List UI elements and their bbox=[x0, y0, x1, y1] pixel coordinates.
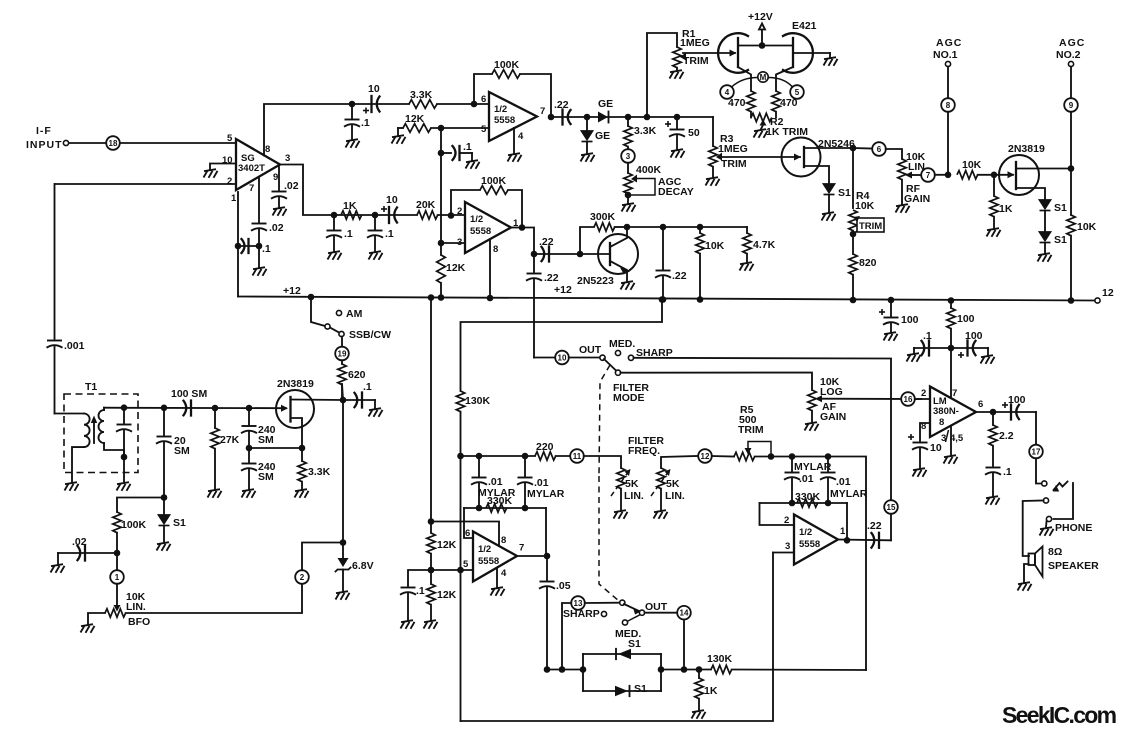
svg-text:3: 3 bbox=[457, 237, 462, 248]
svg-text:14: 14 bbox=[680, 609, 689, 618]
diode GE series bbox=[598, 98, 613, 123]
svg-text:TRIM: TRIM bbox=[683, 55, 709, 67]
svg-text:.22: .22 bbox=[867, 520, 882, 532]
capacitor .01 mylar first bbox=[471, 456, 516, 508]
ground .1 BFO bbox=[369, 408, 383, 417]
svg-text:5K: 5K bbox=[625, 478, 639, 490]
svg-text:470: 470 bbox=[728, 97, 746, 109]
ground U5 pins345 bbox=[944, 426, 958, 464]
wire input to node 18 bbox=[69, 142, 106, 144]
svg-text:10: 10 bbox=[558, 354, 567, 363]
transformer T1 box bbox=[64, 381, 138, 473]
svg-text:T1: T1 bbox=[85, 381, 97, 393]
svg-text:10K: 10K bbox=[962, 159, 982, 171]
capacitor .22 shunt vertical bbox=[526, 254, 559, 358]
junction bus 820 bbox=[850, 297, 857, 304]
capacitor .05 bbox=[539, 556, 571, 670]
resistor 100K U2 feedback bbox=[492, 59, 520, 78]
ground 100uF bbox=[884, 332, 898, 341]
switch2 contact MED bbox=[615, 615, 641, 641]
svg-text:18: 18 bbox=[109, 139, 118, 148]
switch contact SHARP bbox=[628, 347, 672, 360]
ground 1K limiter bbox=[692, 710, 706, 719]
capacitor 10 polarized row2 bbox=[381, 194, 398, 223]
node 7 bbox=[921, 168, 948, 182]
svg-text:AM: AM bbox=[346, 308, 363, 320]
wire U3 pin8 to bus bbox=[489, 240, 491, 298]
svg-text:GE: GE bbox=[595, 130, 610, 142]
ground GE shunt bbox=[581, 153, 595, 162]
ground U2 pin4 bbox=[508, 128, 522, 162]
svg-text:10: 10 bbox=[368, 83, 380, 95]
svg-text:INPUT: INPUT bbox=[26, 139, 63, 151]
svg-text:12: 12 bbox=[701, 452, 710, 461]
svg-text:100: 100 bbox=[965, 330, 983, 342]
wire U4 pin6 bbox=[464, 508, 473, 538]
label OUT switch2 bbox=[645, 601, 668, 613]
wire drain to R4 bbox=[852, 148, 854, 208]
wire U1 pin2 bbox=[55, 183, 236, 185]
ground zener bbox=[336, 591, 350, 600]
svg-text:MYLAR: MYLAR bbox=[830, 488, 868, 500]
junction R1 feed bbox=[644, 114, 651, 121]
wire BFO gate row bbox=[104, 407, 286, 410]
junction 10K top bbox=[697, 224, 704, 231]
capacitor .02 pin9 bbox=[271, 180, 299, 207]
pot 5K LIN first bbox=[611, 468, 644, 510]
I-F INPUT label bbox=[26, 125, 63, 151]
ground 10 U5 bbox=[913, 468, 927, 477]
ground R3 bbox=[706, 177, 720, 186]
capacitor .1 between pin1 and pin7 lines bbox=[238, 239, 271, 255]
svg-text:7: 7 bbox=[540, 106, 545, 117]
trimmer R1 1MEG TRIM bbox=[673, 28, 710, 70]
diode S1 top leftward bbox=[616, 638, 641, 659]
pot 5K LIN second bbox=[651, 456, 698, 510]
ground 12K bbox=[392, 135, 406, 144]
node 10 bbox=[534, 351, 600, 365]
wire 3.3K to U2 pin6 bbox=[437, 103, 489, 105]
svg-text:.1: .1 bbox=[262, 243, 271, 255]
wire pin2 down left bbox=[54, 184, 56, 339]
svg-text:LIN.: LIN. bbox=[624, 490, 644, 502]
svg-text:LIN.: LIN. bbox=[665, 490, 685, 502]
resistor 1K bbox=[341, 200, 362, 219]
capacitor .1 pin7 bbox=[914, 330, 951, 356]
svg-text:2: 2 bbox=[921, 388, 926, 399]
node 17 bbox=[1029, 445, 1043, 481]
junction U3 pin2 bbox=[448, 212, 455, 219]
junction 20SM bbox=[161, 405, 168, 412]
junction .1 cap row bbox=[438, 150, 445, 157]
capacitor .1 U4 bbox=[400, 585, 425, 620]
svg-text:8: 8 bbox=[265, 144, 270, 155]
svg-text:130K: 130K bbox=[465, 395, 491, 407]
svg-text:1MEG: 1MEG bbox=[680, 37, 710, 49]
wire vertical x441 bbox=[440, 128, 442, 255]
wire into T1 primary bbox=[55, 413, 85, 415]
wire bias 322 line bbox=[461, 300, 663, 392]
wire U6 pin3 bbox=[773, 552, 794, 554]
svg-text:.1: .1 bbox=[344, 228, 353, 240]
ground 5K second bbox=[654, 510, 668, 519]
capacitor .02 pin7 bbox=[251, 222, 284, 267]
svg-text:12K: 12K bbox=[405, 113, 425, 125]
labels FILTER FREQ bbox=[628, 435, 664, 457]
ground 4.7K bbox=[740, 262, 754, 271]
diode S1 BFO bbox=[159, 498, 187, 543]
trimmer R5 500 TRIM bbox=[734, 404, 792, 461]
capacitor 240 SM lower bbox=[241, 448, 276, 489]
junction U6 out bbox=[844, 537, 851, 544]
switch arm filter mode bbox=[604, 359, 621, 375]
svg-text:DECAY: DECAY bbox=[658, 186, 694, 198]
wire row to R3 bbox=[712, 117, 714, 146]
svg-text:2N3819: 2N3819 bbox=[277, 378, 314, 390]
svg-text:+12: +12 bbox=[554, 284, 572, 296]
phone jack sleeve to speaker bbox=[1023, 498, 1049, 556]
ground Q2 source bbox=[1038, 253, 1052, 262]
ground AF GAIN bbox=[805, 422, 819, 431]
svg-text:100 SM: 100 SM bbox=[171, 388, 207, 400]
wire SHARP line bbox=[634, 358, 891, 500]
ground 240SM bbox=[242, 489, 256, 498]
svg-text:MED.: MED. bbox=[609, 338, 635, 350]
svg-text:16: 16 bbox=[904, 395, 913, 404]
svg-text:27K: 27K bbox=[220, 434, 240, 446]
svg-text:S1: S1 bbox=[1054, 234, 1067, 246]
svg-text:1: 1 bbox=[115, 573, 120, 582]
svg-text:1K: 1K bbox=[343, 200, 357, 212]
switch contact OUT bbox=[579, 344, 605, 360]
transistor Q1 2N5246 bbox=[782, 138, 855, 185]
trimmer R4 10K TRIM bbox=[849, 190, 884, 254]
resistor 10K horizontal bbox=[957, 159, 994, 179]
svg-text:100: 100 bbox=[957, 313, 975, 325]
svg-text:1MEG: 1MEG bbox=[718, 143, 748, 155]
svg-text:9: 9 bbox=[1069, 101, 1074, 110]
svg-text:330K: 330K bbox=[487, 495, 513, 507]
wire to 100K bbox=[117, 498, 164, 513]
junction Q2 gate bbox=[991, 172, 998, 179]
junction pin5 bias bbox=[428, 567, 464, 574]
svg-text:17: 17 bbox=[1032, 448, 1041, 457]
junction bus 130K feed bbox=[659, 296, 666, 303]
wire node18 to U1 pin5 bbox=[120, 142, 236, 144]
capacitor 240 SM upper bbox=[241, 408, 276, 448]
ground S1 Q1 bbox=[822, 212, 836, 221]
svg-text:3: 3 bbox=[785, 541, 790, 552]
svg-text:S1: S1 bbox=[1054, 202, 1067, 214]
resistor 12K upper U4 bbox=[427, 533, 457, 584]
ground pin9 cap bbox=[273, 207, 287, 216]
speaker 8ohm bbox=[1024, 546, 1099, 582]
svg-text:NO.2: NO.2 bbox=[1056, 49, 1081, 61]
pot 10K LOG AF GAIN bbox=[808, 376, 921, 423]
junction Q1 drain bbox=[850, 145, 857, 152]
svg-text:.22: .22 bbox=[539, 236, 554, 248]
op-amp U2 1/2 5558 bbox=[481, 92, 545, 142]
svg-text:S1: S1 bbox=[628, 638, 641, 650]
wire U6 output bbox=[838, 539, 891, 542]
junction U5 out bbox=[990, 409, 997, 416]
resistor 470 left bbox=[728, 91, 755, 118]
wire collector row bbox=[627, 226, 747, 228]
junction pin7 filters bbox=[948, 345, 955, 352]
svg-text:SSB/CW: SSB/CW bbox=[349, 329, 391, 341]
+12 bus bbox=[238, 284, 1095, 301]
ground E421 right gate bbox=[824, 57, 838, 66]
resistor 1K to ground bbox=[990, 175, 1013, 228]
wire MED line to AF pot bbox=[621, 373, 813, 391]
svg-text:15: 15 bbox=[887, 503, 896, 512]
svg-text:.1: .1 bbox=[363, 381, 372, 393]
ground R2 bbox=[754, 129, 768, 138]
node 4 bbox=[720, 78, 758, 99]
svg-text:AGC: AGC bbox=[936, 37, 962, 49]
junction 130K row456 bbox=[457, 453, 464, 460]
transistor Q3 2N5223 bbox=[577, 227, 638, 287]
wire x431 bus to 12K bbox=[430, 298, 432, 534]
junction BFO drain bbox=[340, 384, 347, 403]
resistor 100K U3 feedback bbox=[480, 175, 508, 194]
capacitor .22 U6 out bbox=[867, 520, 882, 548]
svg-text:.1: .1 bbox=[1003, 466, 1012, 478]
ground 3.3K BFO bbox=[295, 489, 309, 498]
svg-text:20K: 20K bbox=[416, 199, 436, 211]
junction 240SM mid bbox=[246, 445, 302, 452]
node 16 bbox=[901, 392, 930, 406]
ground U4 pin4 bbox=[491, 568, 505, 596]
svg-text:1K TRIM: 1K TRIM bbox=[766, 126, 808, 138]
resistor 100 dropping bbox=[947, 301, 975, 398]
ground pin7 cap bbox=[253, 267, 267, 276]
supply +12V E421 bbox=[748, 11, 773, 46]
resistor 330K U6 bbox=[795, 491, 821, 507]
resistor 130K bias bbox=[456, 391, 490, 721]
pot 10K LIN RF GAIN bbox=[898, 151, 930, 205]
capacitor .02 BFO bbox=[58, 536, 117, 564]
svg-text:2: 2 bbox=[457, 206, 462, 217]
op-amp U3 1/2 5558 bbox=[457, 202, 519, 255]
svg-text:MYLAR: MYLAR bbox=[794, 461, 832, 473]
resistor 27K bbox=[211, 408, 240, 489]
resistor 3.3K AGC bbox=[624, 117, 657, 147]
junction 12K divider bbox=[428, 567, 435, 574]
svg-text:TRIM: TRIM bbox=[721, 158, 747, 170]
svg-text:4: 4 bbox=[501, 568, 507, 579]
wire U2 feedback loop bbox=[474, 74, 551, 117]
ground BFO pot bbox=[81, 624, 95, 633]
ground 100 pin7 bbox=[981, 355, 995, 364]
svg-text:3.3K: 3.3K bbox=[634, 125, 657, 137]
node 3 bbox=[621, 147, 635, 163]
svg-text:6: 6 bbox=[481, 94, 486, 105]
wire U1 pin7 down bbox=[258, 178, 260, 222]
junction mylar1 top bbox=[476, 453, 483, 460]
capacitor 100 SM bbox=[171, 388, 207, 416]
wire U4 feedback row bbox=[464, 507, 546, 509]
trimmer 400K AGC DECAY bbox=[624, 163, 694, 203]
node 18 bbox=[106, 136, 120, 150]
capacitor 100 pin7 bbox=[951, 330, 988, 358]
svg-text:5558: 5558 bbox=[494, 115, 515, 126]
svg-text:8: 8 bbox=[501, 535, 506, 546]
ground 27K bbox=[208, 489, 222, 498]
svg-text:AGC: AGC bbox=[1059, 37, 1085, 49]
node 8 bbox=[941, 98, 955, 175]
svg-text:10: 10 bbox=[386, 194, 398, 206]
capacitor .01 mylar U6 second bbox=[820, 453, 868, 503]
transistor Q4 2N3819 BFO bbox=[276, 378, 343, 448]
svg-text:.02: .02 bbox=[284, 180, 299, 192]
junction pin1 .1 cap bbox=[235, 243, 242, 250]
junction 100K S1 bbox=[161, 494, 168, 501]
svg-text:.1: .1 bbox=[416, 585, 425, 597]
svg-text:7: 7 bbox=[519, 543, 524, 554]
pot 10K LIN BFO bbox=[88, 584, 302, 628]
junction node7 row AGC bbox=[945, 172, 952, 179]
svg-text:100K: 100K bbox=[494, 59, 520, 71]
junction Q3 base bbox=[577, 251, 584, 258]
ground .1 second bbox=[369, 251, 383, 260]
wire U1 pin1 down to +12 bus bbox=[237, 192, 239, 297]
T1 secondary winding bbox=[99, 408, 124, 457]
svg-text:3: 3 bbox=[285, 153, 290, 164]
capacitor 10 polarized top row bbox=[352, 83, 409, 114]
wire 12K to U2 pin5 bbox=[431, 127, 489, 129]
svg-text:130K: 130K bbox=[707, 653, 733, 665]
svg-text:11: 11 bbox=[573, 452, 582, 461]
resistor 620 bbox=[338, 364, 366, 400]
resistor 2.2 bbox=[989, 412, 1014, 466]
svg-text:4: 4 bbox=[725, 88, 730, 97]
wire U4 pin8 bbox=[431, 522, 499, 547]
node 2 bbox=[295, 543, 343, 584]
junction .05 row bbox=[544, 666, 551, 673]
svg-text:12K: 12K bbox=[437, 539, 457, 551]
junction node2 wire bbox=[340, 539, 347, 546]
phone jack tip bbox=[1036, 481, 1073, 527]
node 1 bbox=[110, 553, 124, 606]
wire to R1 bbox=[647, 33, 677, 117]
svg-text:S1: S1 bbox=[634, 683, 647, 695]
svg-text:10K: 10K bbox=[1077, 221, 1097, 233]
junction bus x431 bbox=[428, 294, 435, 301]
svg-text:100: 100 bbox=[901, 314, 919, 326]
resistor 10K AGC2 bbox=[1067, 215, 1097, 300]
resistor 820 bbox=[849, 254, 877, 300]
ground .1 top row bbox=[346, 139, 360, 148]
svg-text:+12V: +12V bbox=[748, 11, 773, 23]
switch AM / SSB-CW bbox=[311, 297, 391, 347]
svg-text:100K: 100K bbox=[121, 519, 147, 531]
wire fb2 down to out bbox=[846, 503, 848, 540]
wire U1 pin9 bbox=[278, 167, 280, 190]
svg-text:MYLAR: MYLAR bbox=[527, 488, 565, 500]
capacitor .1 first bbox=[326, 215, 353, 251]
node M circle bbox=[758, 72, 768, 82]
svg-text:12K: 12K bbox=[437, 589, 457, 601]
resistor 10K collector bbox=[696, 227, 725, 300]
svg-text:8: 8 bbox=[939, 417, 944, 428]
wire U3 out to .22 bbox=[511, 228, 534, 255]
junction source 3.3K bbox=[299, 445, 306, 452]
ground pin10 bbox=[204, 169, 218, 178]
diode S1 bottom rightward bbox=[615, 683, 647, 696]
T1 primary winding bbox=[72, 414, 90, 483]
watermark SeekIC.com bbox=[1002, 702, 1117, 728]
junction pin7 .1 cap bbox=[256, 243, 263, 250]
ground phone bbox=[1040, 527, 1054, 536]
wire U3 feedback bbox=[451, 190, 522, 228]
svg-text:100K: 100K bbox=[481, 175, 507, 187]
ground R1 bbox=[670, 70, 684, 79]
wire R3 wiper to Q1 gate bbox=[721, 154, 801, 161]
node 5 bbox=[768, 78, 804, 99]
ground T1 primary bbox=[65, 482, 79, 491]
svg-text:1/2: 1/2 bbox=[478, 544, 491, 555]
svg-text:1/2: 1/2 bbox=[799, 527, 812, 538]
svg-text:220: 220 bbox=[536, 441, 554, 453]
junction Q3 collector bbox=[624, 224, 631, 231]
input terminal bbox=[63, 140, 68, 145]
wire filter freq row bbox=[461, 455, 536, 457]
svg-text:6.8V: 6.8V bbox=[352, 560, 374, 572]
svg-text:TRIM: TRIM bbox=[859, 221, 882, 232]
capacitor .22 coupling bbox=[554, 99, 571, 125]
svg-text:MODE: MODE bbox=[613, 392, 645, 404]
dashed link filter mode bbox=[599, 365, 649, 476]
svg-text:I-F: I-F bbox=[36, 125, 52, 137]
capacitor .01 mylar U6 first bbox=[784, 453, 832, 503]
resistor 300K bbox=[580, 211, 627, 254]
svg-text:8: 8 bbox=[946, 101, 951, 110]
resistor 330K U4 bbox=[486, 495, 513, 512]
svg-text:PHONE: PHONE bbox=[1055, 522, 1092, 534]
svg-text:7: 7 bbox=[926, 171, 931, 180]
svg-text:E421: E421 bbox=[792, 20, 817, 32]
svg-text:.1: .1 bbox=[923, 330, 932, 342]
ground .1 first bbox=[328, 251, 342, 260]
svg-text:400K: 400K bbox=[636, 164, 662, 176]
svg-text:5: 5 bbox=[463, 559, 469, 570]
ground .1 x441 bbox=[466, 160, 480, 169]
svg-text:4,5: 4,5 bbox=[950, 433, 964, 444]
svg-text:10: 10 bbox=[930, 442, 942, 454]
svg-text:GE: GE bbox=[598, 98, 613, 110]
svg-text:2: 2 bbox=[300, 573, 305, 582]
svg-text:3: 3 bbox=[626, 152, 631, 161]
junction bus 100ohm bbox=[948, 297, 955, 304]
resistor 100K BFO bbox=[113, 512, 147, 553]
svg-text:470: 470 bbox=[780, 97, 798, 109]
node A top row junction bbox=[349, 101, 356, 108]
svg-text:2N3819: 2N3819 bbox=[1008, 143, 1045, 155]
svg-text:5558: 5558 bbox=[478, 556, 499, 567]
junction 3.3K bbox=[625, 114, 632, 121]
op-amp U1 SG3402T bbox=[222, 133, 290, 204]
wire row box to 130K bbox=[661, 669, 711, 671]
svg-text:300K: 300K bbox=[590, 211, 616, 223]
junction U2 out bbox=[548, 114, 555, 121]
resistor 4.7K bbox=[743, 227, 776, 262]
trimmer R3 1MEG TRIM bbox=[709, 133, 748, 177]
transistor E421 dual FET bbox=[683, 20, 830, 91]
svg-text:3.3K: 3.3K bbox=[308, 466, 331, 478]
ground .1 U4 bbox=[401, 620, 415, 629]
junction pin8 12K bbox=[428, 518, 435, 525]
